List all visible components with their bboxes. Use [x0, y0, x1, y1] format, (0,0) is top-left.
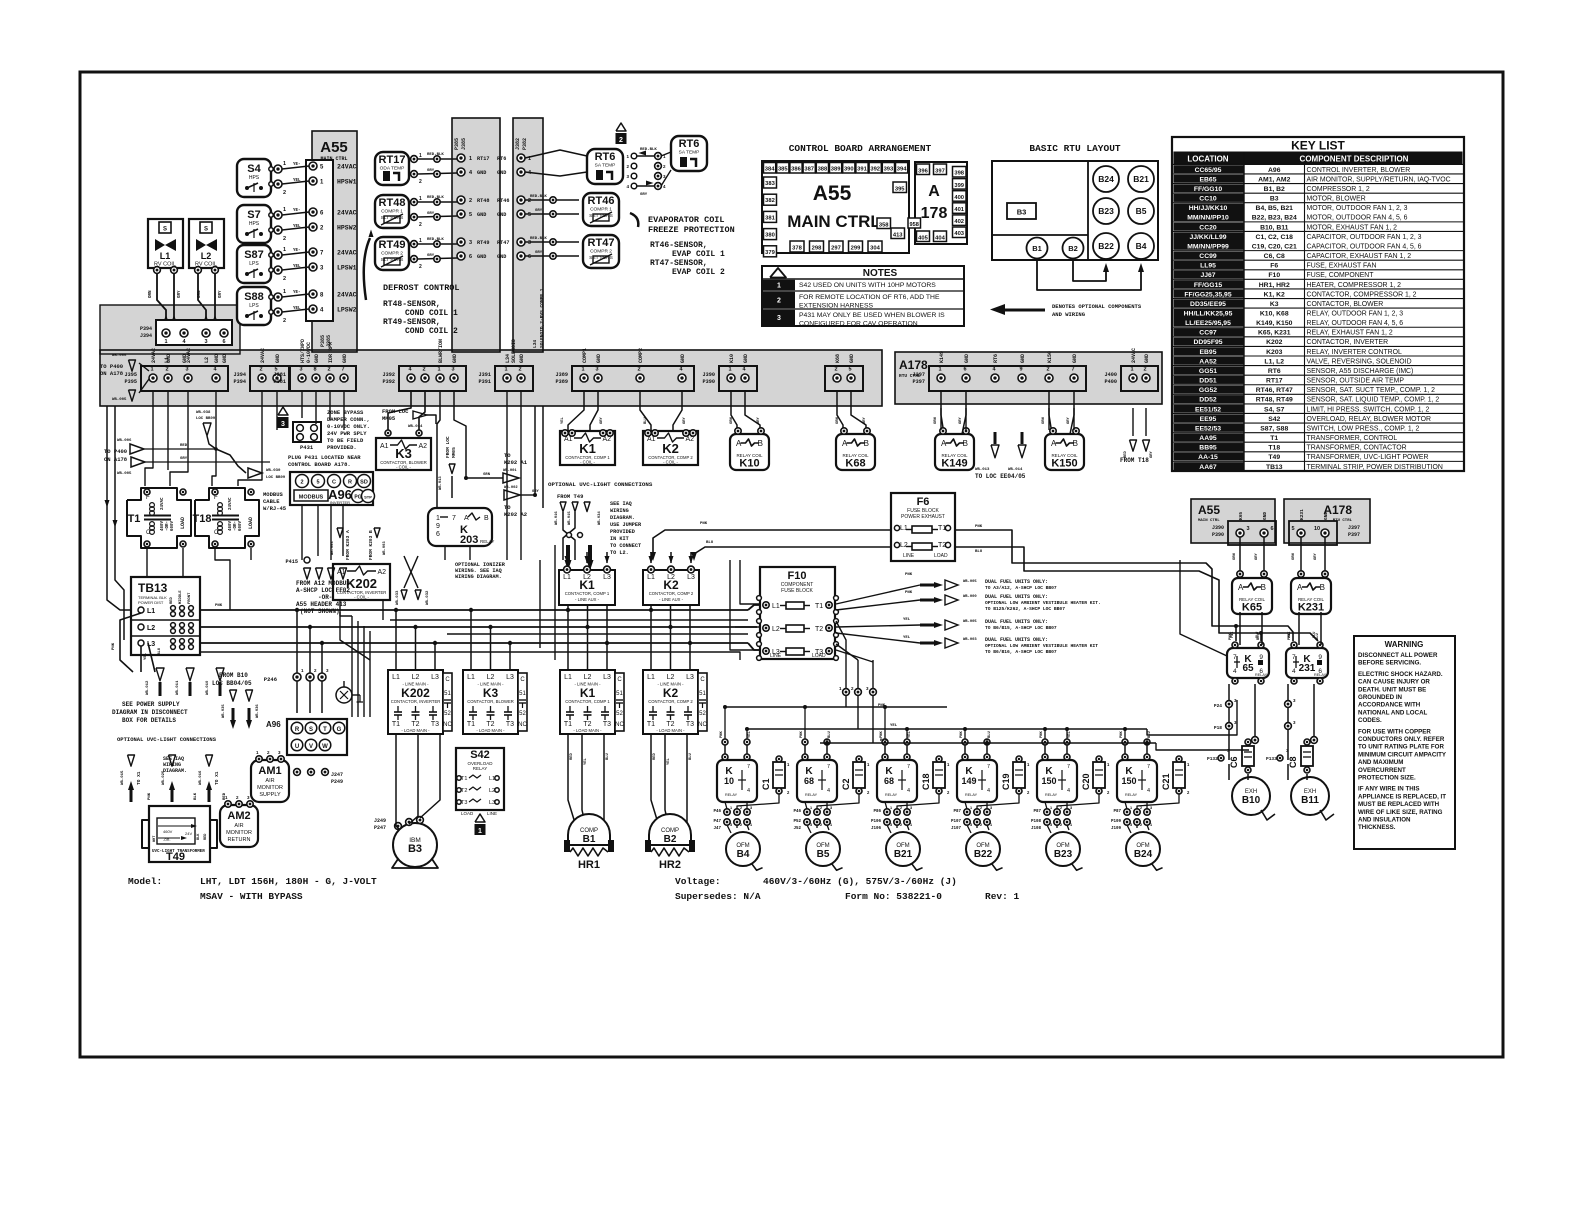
svg-text:P400: P400	[1105, 379, 1117, 385]
svg-text:RT48: RT48	[477, 198, 489, 204]
svg-text:L1: L1	[160, 251, 171, 261]
svg-text:COMPR 1: COMPR 1	[590, 207, 612, 213]
svg-text:BLU: BLU	[1313, 632, 1317, 638]
svg-text:J106: J106	[871, 827, 882, 831]
svg-text:- LOAD MAIN -: - LOAD MAIN -	[656, 728, 685, 733]
svg-text:B22: B22	[1098, 241, 1114, 251]
svg-text:J108: J108	[1031, 827, 1042, 831]
svg-text:404: 404	[935, 235, 945, 241]
svg-text:L3: L3	[686, 674, 694, 681]
svg-text:P394: P394	[140, 326, 152, 332]
svg-text:- LOAD MAIN -: - LOAD MAIN -	[573, 728, 602, 733]
svg-text:10: 10	[724, 776, 734, 786]
svg-text:- LOAD MAIN -: - LOAD MAIN -	[401, 728, 430, 733]
svg-text:LHT, LDT 156H, 180H - G, J-VOL: LHT, LDT 156H, 180H - G, J-VOLT	[200, 876, 377, 887]
svg-text:WB-038: WB-038	[196, 411, 211, 415]
svg-text:S88: S88	[244, 291, 264, 303]
svg-text:CC20: CC20	[1199, 224, 1217, 231]
svg-text:C18: C18	[921, 773, 931, 790]
svg-text:CC97: CC97	[1199, 330, 1217, 337]
svg-text:WB-013: WB-013	[975, 468, 990, 472]
svg-text:GRY: GRY	[427, 254, 435, 258]
svg-text:OVERCURRENT: OVERCURRENT	[1358, 767, 1406, 774]
svg-text:RELAY: RELAY	[1314, 673, 1327, 677]
svg-text:381: 381	[765, 215, 775, 221]
svg-text:GND: GND	[849, 354, 855, 363]
svg-text:358: 358	[879, 222, 889, 228]
svg-text:CONTACTOR, COMP 2: CONTACTOR, COMP 2	[648, 699, 693, 704]
svg-text:LOCATION: LOCATION	[1187, 155, 1228, 164]
svg-text:F10: F10	[1268, 272, 1280, 279]
svg-text:3: 3	[595, 367, 598, 373]
svg-text:MM/NN/PP99: MM/NN/PP99	[1187, 243, 1229, 250]
svg-text:C6, C8: C6, C8	[1264, 253, 1285, 260]
svg-text:J381: J381	[274, 372, 286, 378]
svg-text:A55 HEADER 413: A55 HEADER 413	[296, 601, 347, 608]
svg-text:4: 4	[907, 788, 910, 794]
svg-text:3: 3	[810, 823, 812, 827]
svg-text:WIRING: WIRING	[610, 508, 629, 514]
svg-text:FRONT: FRONT	[188, 592, 192, 604]
svg-text:4: 4	[987, 788, 990, 794]
svg-text:WB-035: WB-035	[222, 704, 226, 718]
svg-text:WB-014: WB-014	[1008, 468, 1023, 472]
svg-text:AIR: AIR	[265, 778, 274, 784]
svg-text:T49: T49	[1268, 454, 1280, 461]
svg-text:WB-015: WB-015	[121, 770, 125, 785]
svg-text:WB-013: WB-013	[439, 476, 443, 490]
svg-text:T1: T1	[461, 776, 467, 782]
svg-text:GRY: GRY	[640, 193, 648, 197]
svg-text:LOAD: LOAD	[180, 517, 186, 529]
svg-text:P431: P431	[300, 444, 314, 451]
svg-text:383: 383	[765, 181, 775, 187]
svg-text:S4, S7: S4, S7	[1264, 406, 1285, 413]
svg-text:1: 1	[970, 806, 972, 810]
svg-text:DENOTES OPTIONAL COMPONENTS: DENOTES OPTIONAL COMPONENTS	[1052, 303, 1142, 310]
svg-text:460V: 460V	[161, 520, 165, 531]
svg-text:T3: T3	[506, 721, 514, 728]
svg-text:WB-005: WB-005	[117, 472, 132, 476]
svg-text:391: 391	[857, 167, 867, 173]
svg-text:RED: RED	[1124, 450, 1128, 458]
svg-text:402: 402	[954, 219, 964, 225]
svg-text:RT6: RT6	[1268, 368, 1281, 375]
svg-text:2: 2	[300, 480, 303, 486]
svg-text:TO B6/B15, A-SHCP LOC BB07: TO B6/B15, A-SHCP LOC BB07	[985, 625, 1057, 631]
svg-text:K65: K65	[1242, 602, 1262, 614]
svg-text:F: F	[146, 495, 150, 501]
svg-text:T1: T1	[815, 603, 823, 610]
svg-text:MIDDLE: MIDDLE	[179, 590, 183, 604]
svg-text:C1: C1	[761, 778, 771, 790]
svg-text:1: 1	[419, 196, 422, 202]
svg-text:GRY: GRY	[1255, 552, 1259, 560]
svg-text:NC: NC	[518, 722, 527, 728]
svg-text:ODA TEMP: ODA TEMP	[380, 166, 405, 172]
svg-text:FF/GG10: FF/GG10	[1194, 186, 1223, 193]
svg-text:2: 2	[1140, 806, 1142, 810]
svg-text:390: 390	[844, 167, 854, 173]
svg-text:PNK: PNK	[112, 642, 116, 650]
svg-text:958: 958	[910, 222, 919, 228]
svg-text:USE JUMPER: USE JUMPER	[610, 522, 642, 528]
svg-text:CONTROL INVERTER, BLOWER: CONTROL INVERTER, BLOWER	[1307, 167, 1411, 174]
svg-text:CONTACTOR, COMP 1: CONTACTOR, COMP 1	[565, 591, 610, 596]
svg-text:PNK: PNK	[800, 730, 804, 738]
svg-text:1: 1	[436, 515, 440, 522]
svg-text:P382: P382	[522, 138, 528, 150]
svg-text:RT48-SENSOR,: RT48-SENSOR,	[383, 300, 441, 309]
svg-text:DIAGRAM.: DIAGRAM.	[163, 768, 187, 774]
svg-text:J249: J249	[374, 818, 386, 824]
svg-text:CODES.: CODES.	[1358, 717, 1382, 724]
svg-text:CONTACTOR, COMPRESSOR 1, 2: CONTACTOR, COMPRESSOR 1, 2	[1307, 291, 1417, 298]
svg-text:7: 7	[1067, 764, 1070, 770]
svg-text:LOC BB99: LOC BB99	[196, 417, 216, 421]
svg-text:YEL: YEL	[903, 636, 911, 640]
svg-text:9: 9	[1019, 367, 1022, 373]
svg-text:K202: K202	[1266, 339, 1282, 346]
svg-text:F6: F6	[1270, 263, 1278, 270]
svg-text:1: 1	[164, 339, 167, 345]
svg-text:FOR USE WITH COPPER: FOR USE WITH COPPER	[1358, 728, 1431, 735]
svg-text:L2: L2	[667, 674, 675, 681]
svg-text:T2: T2	[666, 721, 674, 728]
svg-text:24VAC: 24VAC	[260, 348, 266, 363]
svg-text:2: 2	[1140, 823, 1142, 827]
svg-text:LOAD: LOAD	[248, 517, 254, 529]
svg-text:1: 1	[478, 828, 482, 835]
svg-text:2: 2	[419, 264, 422, 270]
svg-text:P87: P87	[1113, 810, 1121, 814]
svg-text:- COIL -: - COIL -	[580, 460, 595, 465]
svg-text:- LINE AUX -: - LINE AUX -	[575, 597, 600, 602]
svg-text:298: 298	[812, 246, 822, 252]
svg-text:B4: B4	[737, 849, 750, 860]
svg-text:J397: J397	[913, 372, 925, 378]
svg-text:2: 2	[419, 179, 422, 185]
svg-text:T1: T1	[564, 721, 572, 728]
svg-text:398: 398	[954, 171, 964, 177]
svg-text:2: 2	[1046, 367, 1049, 373]
svg-text:F10: F10	[788, 570, 807, 582]
svg-text:FF/GG25,35,95: FF/GG25,35,95	[1184, 291, 1231, 298]
svg-text:K65: K65	[1238, 512, 1244, 520]
svg-text:1: 1	[890, 806, 892, 810]
svg-text:GRY: GRY	[1067, 416, 1071, 424]
svg-text:P415: P415	[286, 559, 298, 565]
svg-text:RELAY: RELAY	[805, 793, 818, 797]
svg-text:L3: L3	[431, 674, 439, 681]
svg-text:3: 3	[1050, 823, 1052, 827]
svg-text:4: 4	[1292, 668, 1296, 675]
svg-text:DUAL FUEL UNITS ONLY:: DUAL FUEL UNITS ONLY:	[985, 637, 1048, 643]
svg-text:T3: T3	[431, 721, 439, 728]
svg-text:P46: P46	[713, 810, 721, 814]
svg-text:J392: J392	[383, 372, 395, 378]
svg-text:CONTROL BOARD ARRANGEMENT: CONTROL BOARD ARRANGEMENT	[789, 143, 932, 154]
svg-text:2: 2	[820, 806, 822, 810]
svg-text:FROM A12 MODBUS: FROM A12 MODBUS	[296, 580, 350, 587]
svg-text:LPSW2: LPSW2	[337, 307, 357, 314]
svg-text:460V: 460V	[229, 520, 233, 531]
svg-text:NOTES: NOTES	[863, 268, 898, 279]
svg-text:K3: K3	[1270, 301, 1279, 308]
svg-text:RT17: RT17	[1266, 378, 1283, 385]
svg-text:GRY: GRY	[427, 169, 435, 173]
svg-text:K202: K202	[401, 686, 430, 700]
svg-text:BLU: BLU	[644, 416, 648, 424]
svg-text:DEATH. UNIT MUST BE: DEATH. UNIT MUST BE	[1358, 686, 1426, 693]
svg-text:2: 2	[518, 367, 521, 373]
svg-text:24V PWR SPLY: 24V PWR SPLY	[327, 430, 367, 437]
svg-text:52: 52	[616, 711, 623, 717]
svg-text:VALVE, REVERSING, SOLENOID: VALVE, REVERSING, SOLENOID	[1307, 358, 1412, 365]
svg-text:P392: P392	[383, 379, 395, 385]
svg-text:MOTOR, OUTDOOR FAN 1, 2, 3: MOTOR, OUTDOOR FAN 1, 2, 3	[1307, 205, 1408, 212]
svg-text:L3: L3	[603, 674, 611, 681]
svg-text:C19, C20, C21: C19, C20, C21	[1252, 243, 1297, 250]
svg-text:DIAGRAM IN DISCONNECT: DIAGRAM IN DISCONNECT	[112, 709, 188, 716]
svg-text:3: 3	[204, 339, 207, 345]
svg-text:YEL: YEL	[293, 307, 301, 311]
svg-text:PG: PG	[354, 495, 361, 501]
svg-text:S7: S7	[247, 209, 260, 221]
svg-text:2: 2	[900, 823, 902, 827]
svg-text:RELAY: RELAY	[1255, 673, 1268, 677]
svg-text:GND: GND	[680, 354, 686, 363]
svg-text:TO LOC EE04/05: TO LOC EE04/05	[975, 473, 1026, 480]
svg-text:L1: L1	[489, 776, 495, 782]
svg-text:BLK: BLK	[194, 792, 198, 800]
svg-text:5: 5	[469, 212, 472, 218]
svg-text:1: 1	[730, 806, 732, 810]
svg-text:L1, L2: L1, L2	[1264, 358, 1284, 365]
svg-text:L1: L1	[467, 674, 475, 681]
svg-text:RED-BLK: RED-BLK	[640, 148, 657, 152]
svg-text:CONTROL BOARD A178.: CONTROL BOARD A178.	[288, 461, 351, 468]
svg-text:T1: T1	[1270, 435, 1278, 442]
svg-text:BEFORE SERVICING.: BEFORE SERVICING.	[1358, 660, 1421, 667]
svg-text:MODBUS: MODBUS	[263, 491, 284, 498]
svg-text:9: 9	[1318, 654, 1322, 661]
svg-text:51: 51	[444, 691, 451, 697]
svg-text:L1: L1	[772, 603, 780, 610]
svg-text:L1: L1	[147, 608, 155, 615]
svg-text:TO P400: TO P400	[100, 363, 123, 370]
svg-text:3: 3	[990, 806, 992, 810]
svg-text:B23: B23	[1054, 849, 1073, 860]
svg-text:RT48: RT48	[379, 197, 406, 209]
svg-text:WARNING: WARNING	[1385, 640, 1424, 649]
svg-text:2: 2	[283, 276, 286, 282]
svg-text:S87: S87	[244, 249, 264, 261]
svg-text:P381: P381	[274, 379, 286, 385]
svg-text:W: W	[322, 744, 328, 750]
svg-text:GND: GND	[519, 354, 525, 363]
svg-text:MM05: MM05	[451, 447, 457, 458]
svg-text:3: 3	[469, 240, 472, 246]
svg-text:P106: P106	[871, 820, 882, 824]
svg-text:413: 413	[893, 232, 903, 238]
svg-text:R: R	[295, 727, 300, 733]
svg-text:-OR-: -OR-	[234, 521, 238, 531]
svg-text:7: 7	[747, 764, 750, 770]
svg-text:B4, B5, B21: B4, B5, B21	[1256, 205, 1294, 212]
svg-text:BB95: BB95	[1199, 445, 1217, 452]
svg-text:IF ANY WIRE IN THIS: IF ANY WIRE IN THIS	[1358, 786, 1420, 793]
svg-text:10: 10	[1314, 526, 1320, 532]
svg-text:GG52: GG52	[1199, 387, 1217, 394]
svg-text:B10: B10	[1242, 795, 1261, 806]
svg-text:9: 9	[436, 523, 440, 530]
svg-text:-OR-: -OR-	[318, 594, 332, 601]
svg-text:389: 389	[831, 167, 841, 173]
svg-text:CONTACTOR, BLOWER: CONTACTOR, BLOWER	[467, 699, 514, 704]
svg-text:ON A178: ON A178	[100, 370, 124, 377]
svg-text:S: S	[204, 227, 208, 233]
svg-text:RT47: RT47	[497, 240, 509, 246]
svg-text:COMP2: COMP2	[638, 348, 644, 363]
svg-text:HR1: HR1	[578, 859, 600, 871]
svg-text:1: 1	[283, 161, 286, 167]
svg-text:P132: P132	[1207, 756, 1218, 762]
svg-text:RT49: RT49	[477, 240, 489, 246]
svg-text:AIR MONITOR, SUPPLY/RETURN, IA: AIR MONITOR, SUPPLY/RETURN, IAQ-TVOC	[1307, 176, 1451, 183]
svg-text:GND: GND	[1262, 512, 1268, 520]
svg-text:52: 52	[444, 711, 451, 717]
svg-text:J390: J390	[703, 372, 715, 378]
svg-text:L34: L34	[532, 340, 538, 348]
svg-text:PNK: PNK	[905, 591, 913, 595]
svg-text:TO B125/K262, A-SHCP LOC BB07: TO B125/K262, A-SHCP LOC BB07	[985, 606, 1065, 612]
svg-text:FOR REMOTE LOCATION OF RT6, AD: FOR REMOTE LOCATION OF RT6, ADD THE	[799, 294, 940, 301]
svg-text:P52: P52	[793, 820, 801, 824]
svg-text:460V: 460V	[163, 829, 173, 834]
svg-text:WB-010: WB-010	[206, 680, 210, 695]
svg-text:GND: GND	[1323, 512, 1329, 520]
svg-text:AM1, AM2: AM1, AM2	[1258, 176, 1290, 183]
svg-text:POWER EXHAUST: POWER EXHAUST	[901, 514, 945, 520]
svg-text:1: 1	[938, 367, 941, 373]
svg-text:DD52: DD52	[1199, 397, 1217, 404]
svg-text:TRANSFORMER, UVC-LIGHT POWER: TRANSFORMER, UVC-LIGHT POWER	[1307, 454, 1429, 461]
svg-text:2: 2	[1060, 823, 1062, 827]
svg-text:PLUG P431 LOCATED NEAR: PLUG P431 LOCATED NEAR	[288, 454, 361, 461]
svg-text:K149, K150: K149, K150	[1256, 320, 1292, 327]
svg-text:S42: S42	[470, 749, 490, 761]
svg-text:3: 3	[750, 806, 752, 810]
svg-text:7: 7	[987, 764, 990, 770]
svg-text:C6: C6	[1229, 756, 1239, 768]
svg-text:YEL: YEL	[293, 225, 301, 229]
svg-text:PNK: PNK	[215, 604, 223, 608]
svg-text:RED-BLK: RED-BLK	[530, 237, 547, 241]
svg-text:52: 52	[519, 711, 526, 717]
svg-text:CAPACITOR, OUTDOOR FAN 4, 5, 6: CAPACITOR, OUTDOOR FAN 4, 5, 6	[1307, 243, 1422, 250]
svg-text:T3: T3	[686, 721, 694, 728]
svg-text:1: 1	[419, 153, 422, 159]
svg-text:SA TEMP: SA TEMP	[679, 150, 700, 156]
svg-text:K149: K149	[939, 351, 945, 363]
svg-text:GRY: GRY	[1150, 450, 1154, 458]
svg-text:K2: K2	[663, 686, 679, 700]
svg-text:U: U	[295, 744, 299, 750]
svg-text:5: 5	[528, 212, 531, 218]
svg-text:WB-036: WB-036	[256, 704, 260, 718]
svg-text:GND: GND	[477, 170, 486, 176]
svg-text:T: T	[323, 727, 327, 733]
svg-text:P389: P389	[556, 379, 568, 385]
svg-text:P87: P87	[953, 810, 961, 814]
svg-text:GRY: GRY	[180, 457, 188, 461]
svg-text:299: 299	[851, 246, 861, 252]
svg-text:24VAC: 24VAC	[186, 348, 192, 363]
svg-text:GRY: GRY	[535, 251, 543, 255]
svg-text:A55: A55	[813, 182, 852, 205]
svg-text:YEL: YEL	[584, 757, 588, 765]
svg-text:GND: GND	[166, 354, 172, 363]
svg-text:BLU: BLU	[689, 752, 693, 760]
svg-text:P390: P390	[1212, 532, 1224, 538]
svg-text:P108: P108	[1031, 820, 1042, 824]
svg-text:3: 3	[1130, 823, 1132, 827]
svg-text:WB-015: WB-015	[568, 511, 572, 525]
svg-text:A55: A55	[320, 139, 348, 156]
svg-text:GND: GND	[452, 354, 458, 363]
svg-text:TO BE FIELD: TO BE FIELD	[327, 437, 364, 444]
svg-text:K1: K1	[580, 686, 596, 700]
svg-text:YEL: YEL	[144, 652, 148, 660]
svg-text:51: 51	[616, 691, 623, 697]
svg-text:OPTIONAL UVC-LIGHT CONNECTIONS: OPTIONAL UVC-LIGHT CONNECTIONS	[548, 481, 653, 488]
svg-text:RT48, RT49: RT48, RT49	[1256, 397, 1293, 404]
svg-text:1: 1	[283, 289, 286, 295]
svg-text:AA67: AA67	[1199, 464, 1217, 471]
svg-text:392: 392	[870, 167, 880, 173]
svg-text:RT6: RT6	[595, 151, 616, 163]
svg-text:LIMIT, HI PRESS. SWITCH, COMP.: LIMIT, HI PRESS. SWITCH, COMP. 1, 2	[1307, 406, 1430, 413]
svg-text:RELAY: RELAY	[725, 793, 738, 797]
svg-text:MODBUS: MODBUS	[299, 495, 324, 501]
svg-text:2: 2	[1060, 806, 1062, 810]
svg-text:STP: STP	[364, 495, 372, 500]
svg-text:EE52/53: EE52/53	[1195, 425, 1221, 432]
svg-text:SENSOR, SAT. SUCT TEMP., COMP.: SENSOR, SAT. SUCT TEMP., COMP. 1, 2	[1307, 387, 1436, 394]
svg-text:1: 1	[469, 156, 472, 162]
svg-text:RED: RED	[204, 834, 208, 840]
svg-text:24VAC: 24VAC	[1131, 348, 1137, 363]
svg-text:RELAY, INVERTER CONTROL: RELAY, INVERTER CONTROL	[1307, 349, 1403, 356]
svg-text:INVERTER: INVERTER	[330, 500, 350, 505]
svg-text:L1: L1	[647, 674, 655, 681]
svg-text:L1: L1	[647, 574, 655, 581]
svg-text:399: 399	[954, 183, 964, 189]
svg-text:GRN: GRN	[483, 473, 491, 477]
svg-text:K3: K3	[483, 686, 499, 700]
svg-text:WB-006: WB-006	[112, 354, 127, 358]
svg-text:B24: B24	[1098, 174, 1114, 184]
svg-text:K1, K2: K1, K2	[1264, 291, 1285, 298]
svg-text:2: 2	[1143, 367, 1146, 373]
svg-text:24VAC: 24VAC	[337, 210, 357, 217]
svg-text:B21: B21	[1133, 174, 1149, 184]
svg-text:J52: J52	[793, 827, 801, 831]
svg-text:MUST BE REPLACED WITH: MUST BE REPLACED WITH	[1358, 801, 1440, 808]
svg-text:B: B	[1261, 583, 1266, 592]
svg-text:J397: J397	[1348, 525, 1360, 531]
